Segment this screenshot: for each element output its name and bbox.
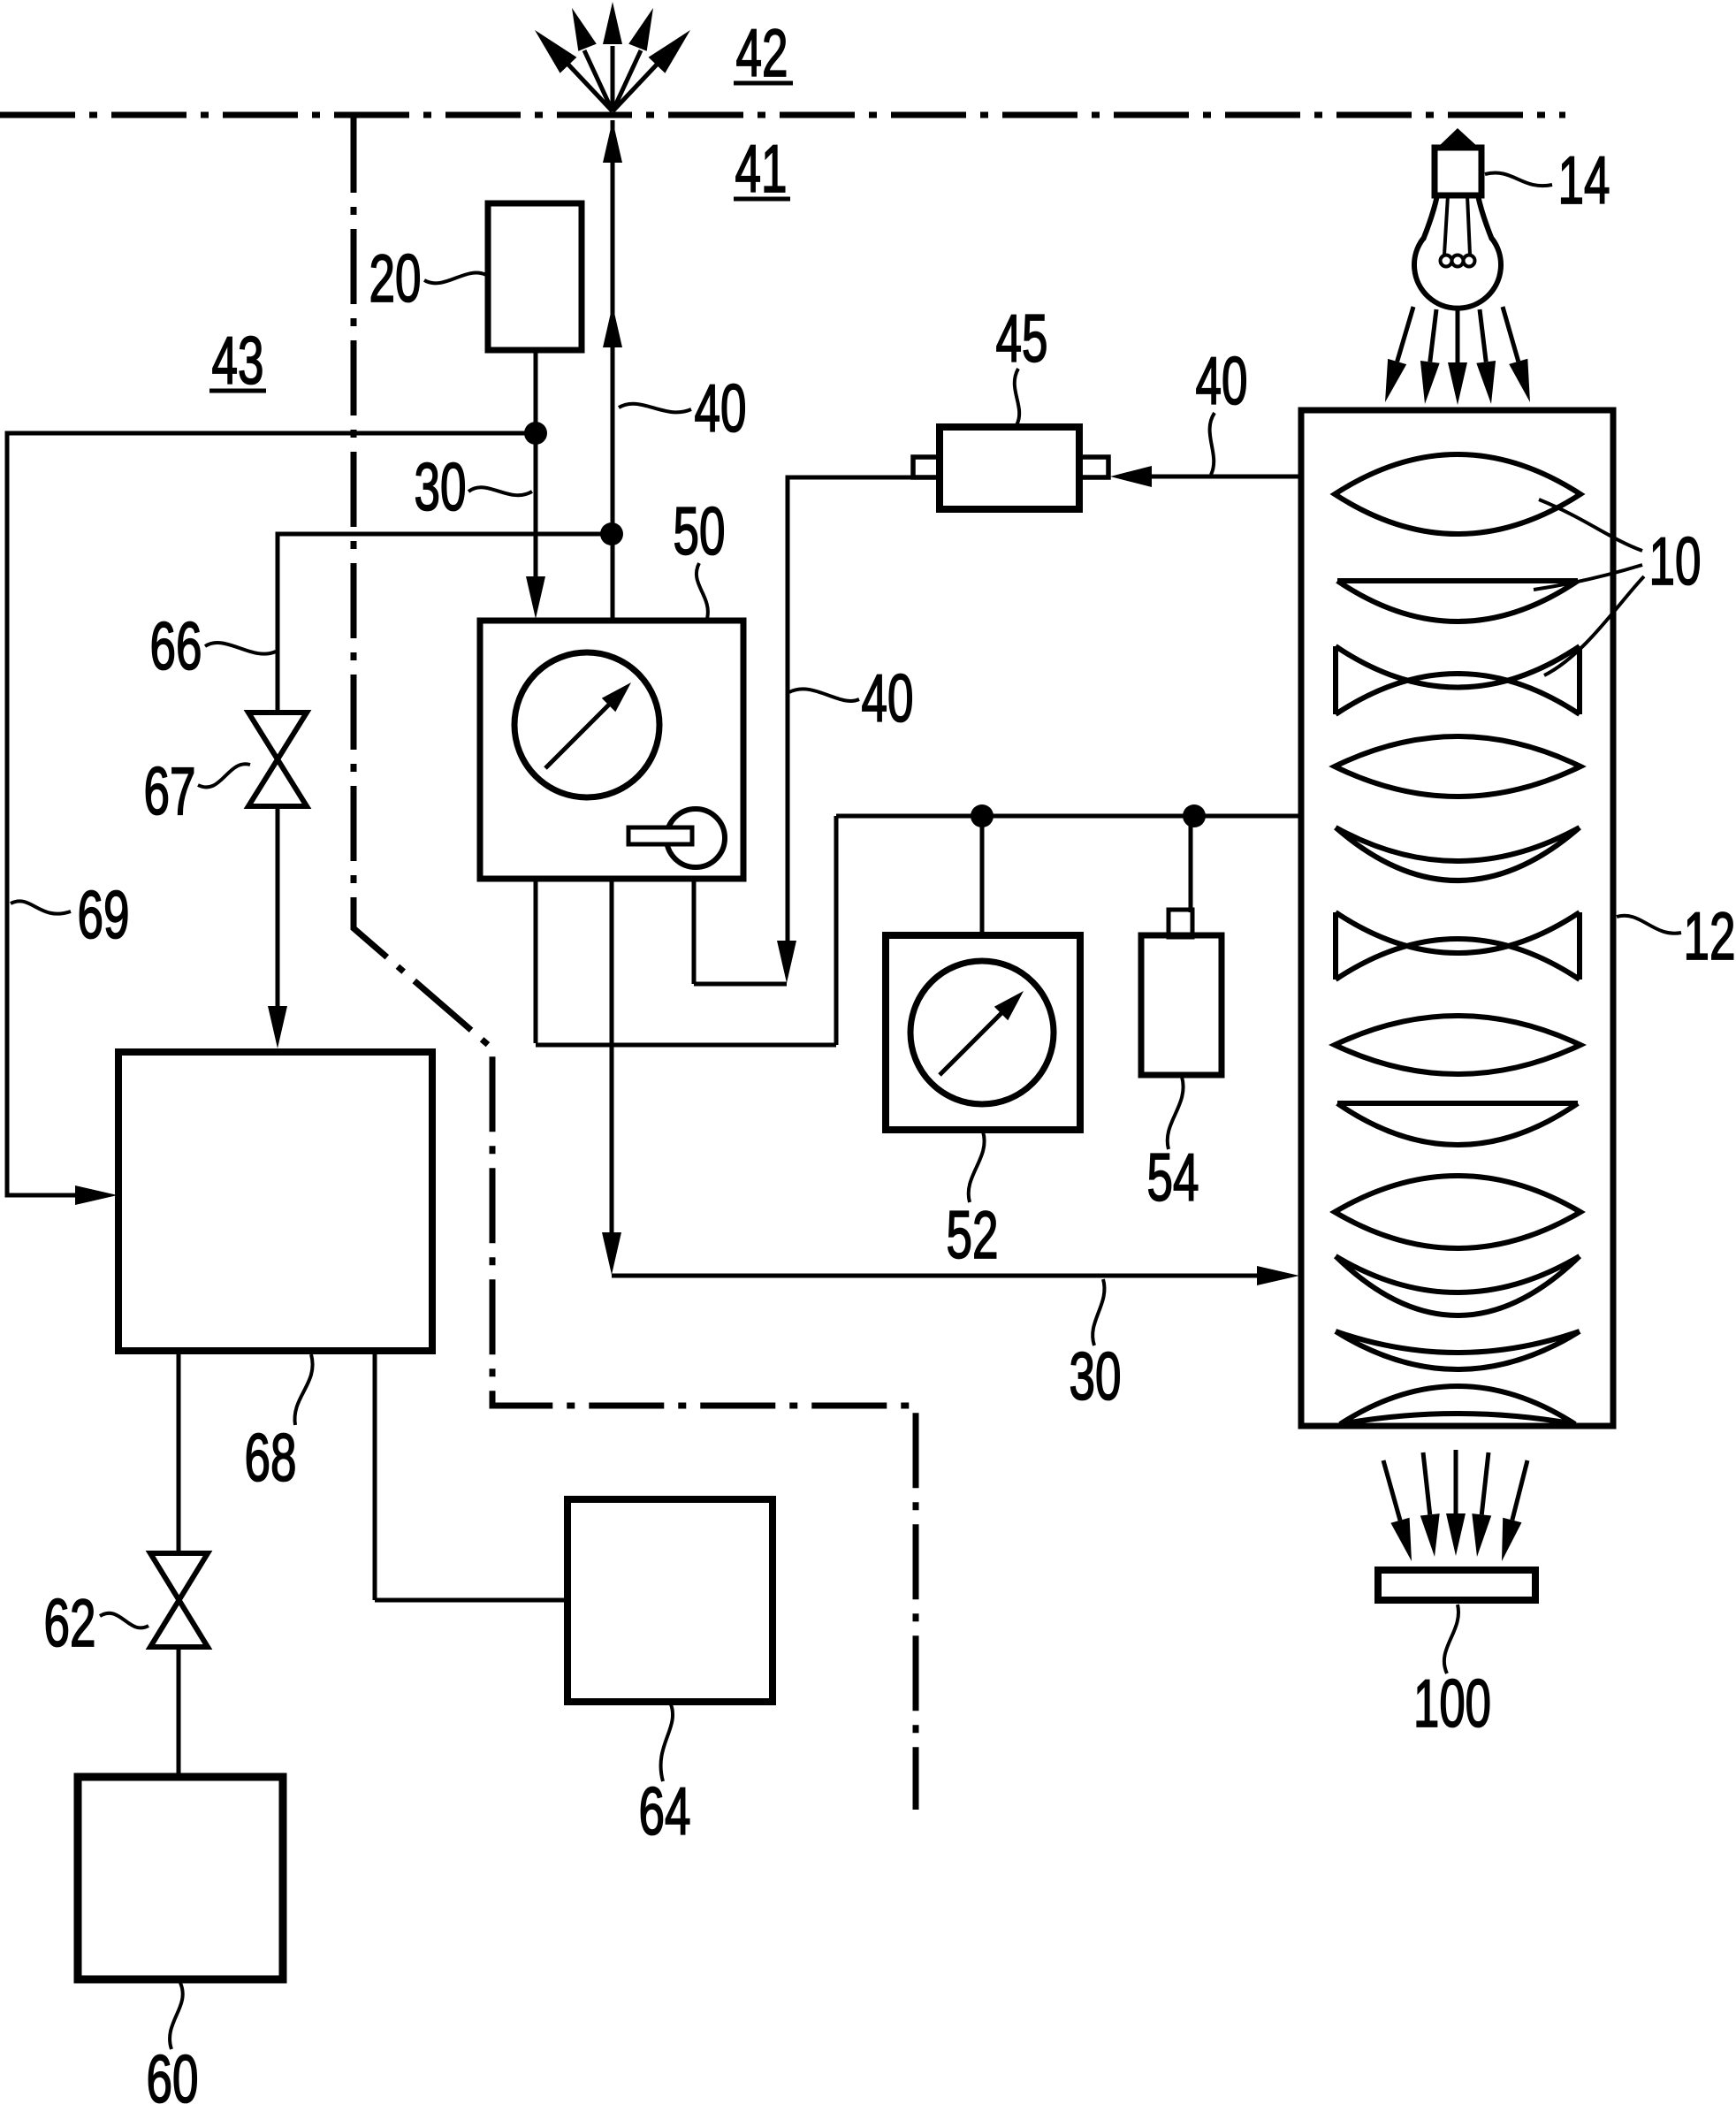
svg-text:40: 40 xyxy=(695,371,747,446)
svg-text:66: 66 xyxy=(150,609,202,684)
svg-text:67: 67 xyxy=(144,754,196,829)
svg-text:100: 100 xyxy=(1413,1666,1491,1742)
svg-text:40: 40 xyxy=(862,661,914,736)
svg-text:50: 50 xyxy=(674,494,726,569)
svg-text:40: 40 xyxy=(1196,344,1248,419)
svg-text:10: 10 xyxy=(1649,524,1702,599)
svg-text:60: 60 xyxy=(147,2042,199,2104)
svg-text:68: 68 xyxy=(245,1421,297,1496)
svg-text:41: 41 xyxy=(735,132,788,207)
svg-text:54: 54 xyxy=(1147,1140,1199,1216)
svg-text:43: 43 xyxy=(212,324,264,399)
svg-text:14: 14 xyxy=(1558,143,1610,218)
svg-text:12: 12 xyxy=(1684,899,1736,974)
svg-text:64: 64 xyxy=(639,1774,691,1849)
svg-text:62: 62 xyxy=(44,1586,96,1661)
svg-text:30: 30 xyxy=(415,450,467,525)
svg-text:20: 20 xyxy=(369,241,422,316)
svg-text:42: 42 xyxy=(736,16,788,91)
svg-text:30: 30 xyxy=(1070,1339,1122,1414)
svg-text:52: 52 xyxy=(947,1198,999,1273)
svg-text:69: 69 xyxy=(78,878,130,953)
svg-text:45: 45 xyxy=(996,301,1048,377)
